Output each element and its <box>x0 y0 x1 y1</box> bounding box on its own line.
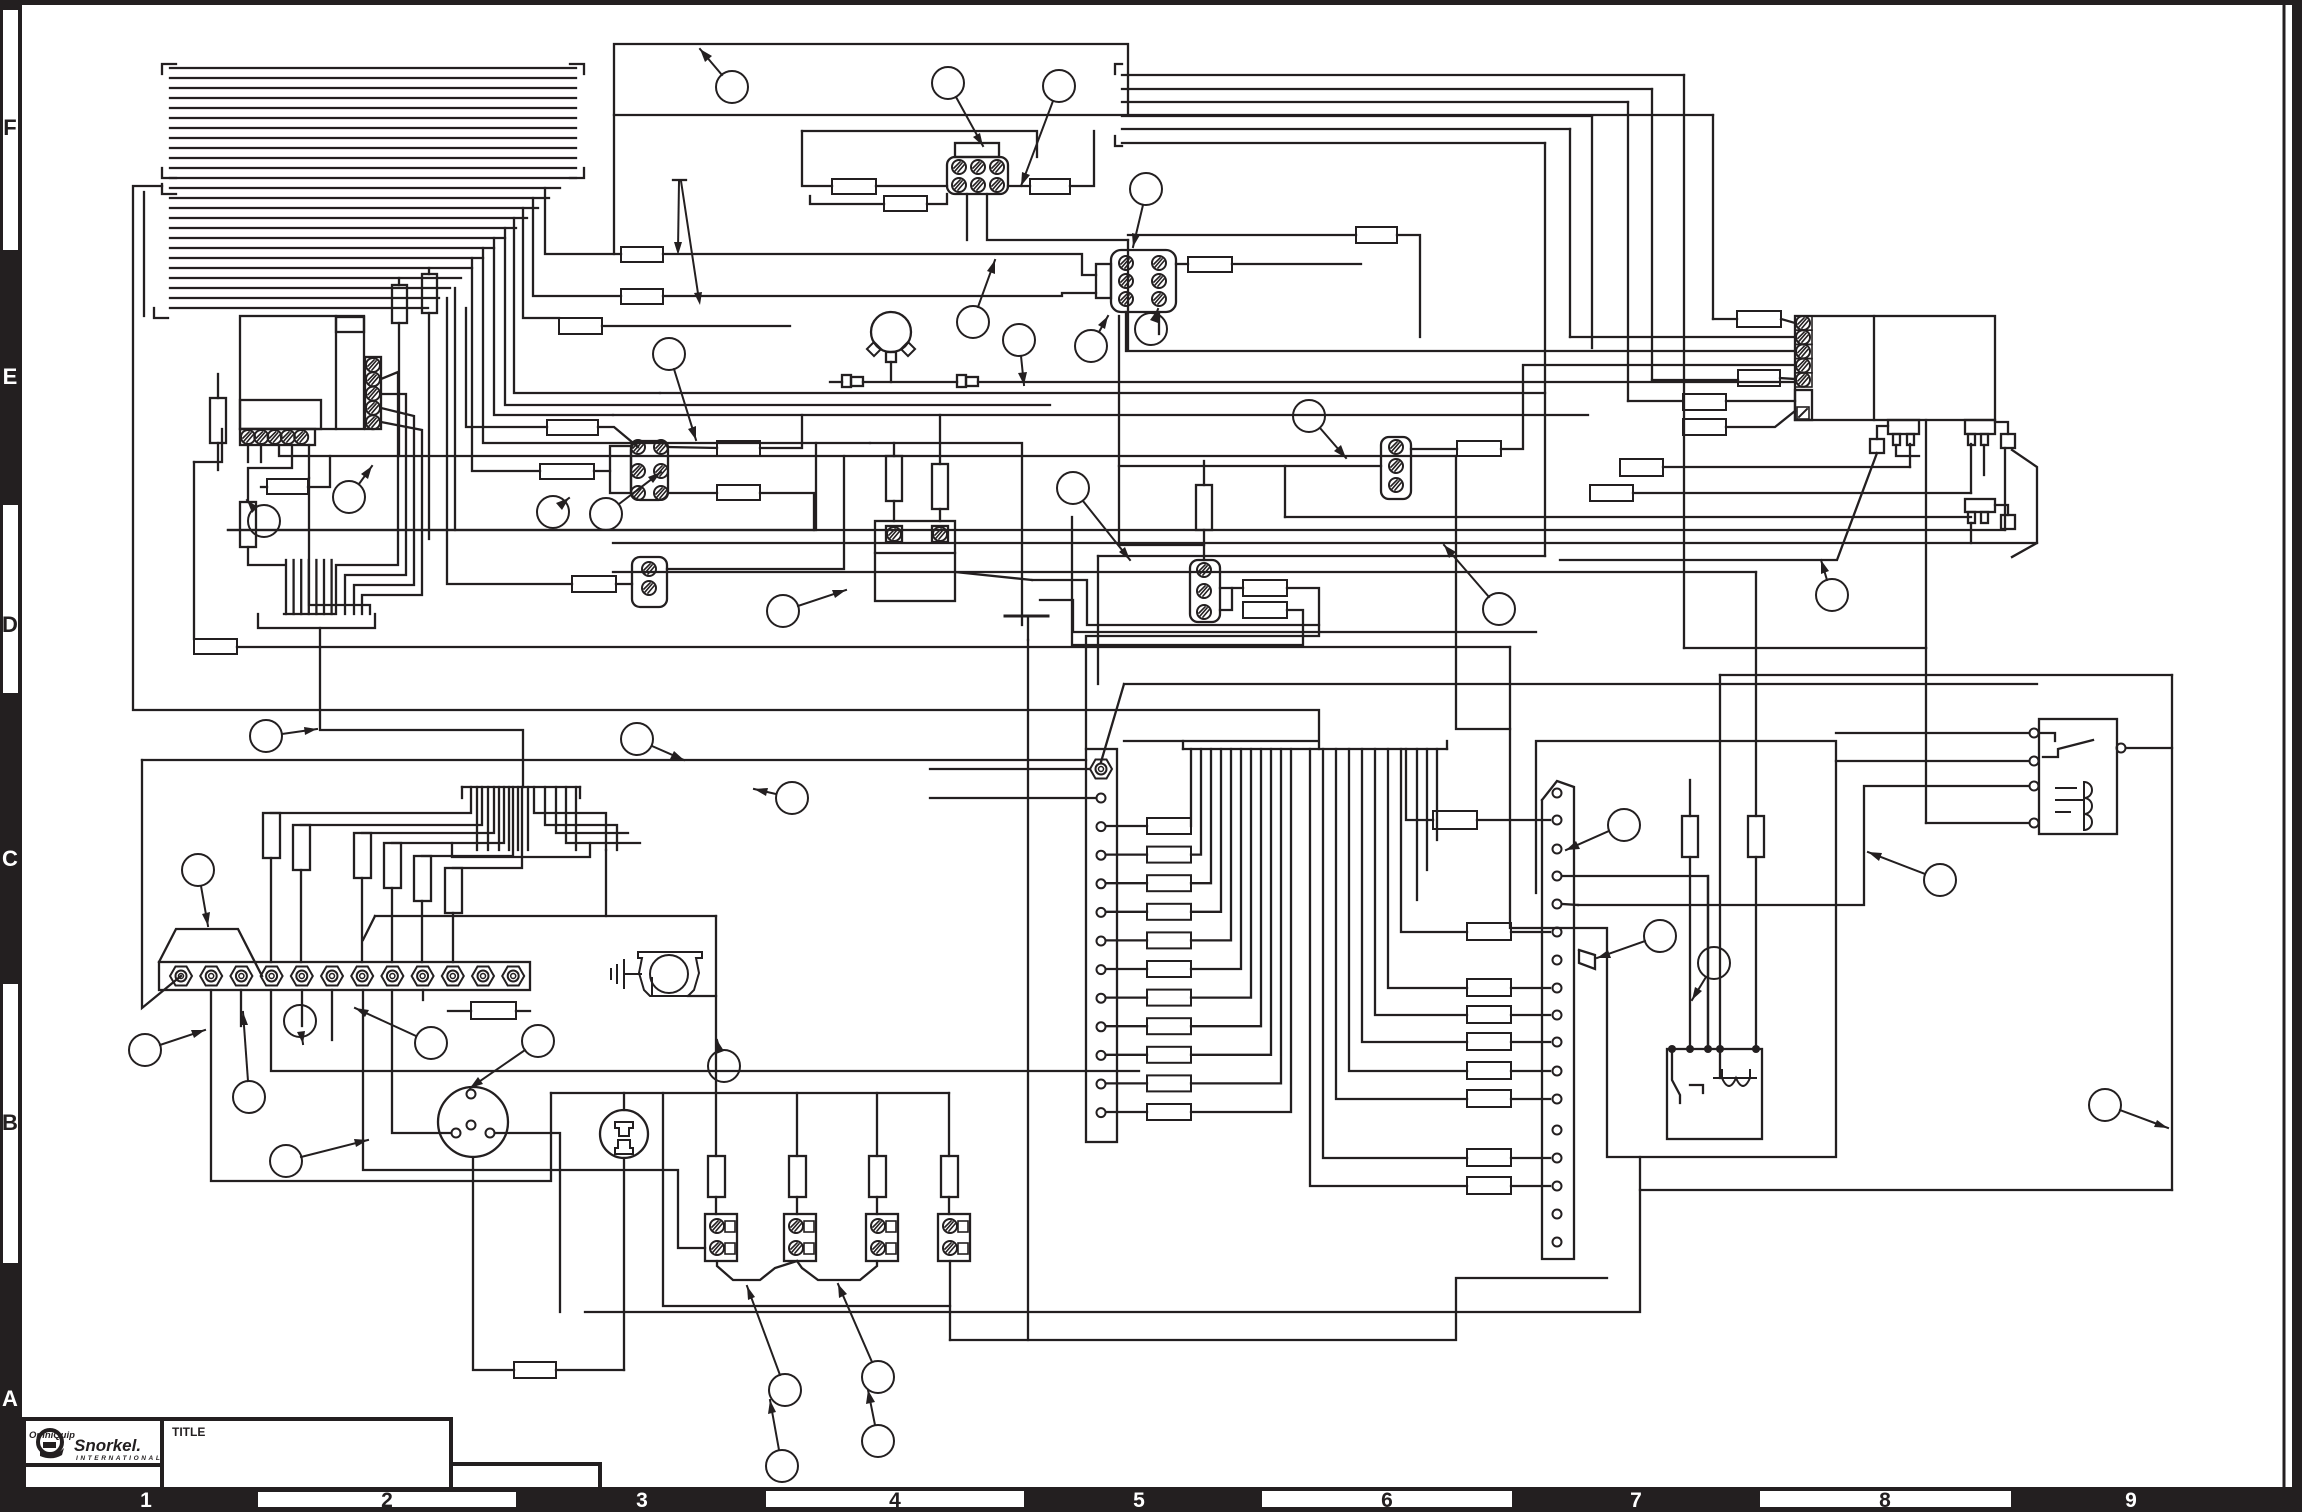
wire <box>1106 853 1147 855</box>
resistor <box>471 1002 516 1019</box>
wire <box>1663 466 1910 468</box>
screw terminal <box>502 967 524 986</box>
box <box>1795 344 1812 358</box>
wire to FB2 <box>663 254 1096 275</box>
callout balloon <box>470 1025 554 1088</box>
wire <box>258 614 375 628</box>
callout balloon <box>621 723 684 760</box>
wire <box>1511 1185 1550 1187</box>
wire <box>143 192 145 316</box>
wire <box>1220 588 1232 610</box>
wire <box>1232 263 1361 265</box>
wire <box>1726 400 1795 402</box>
screw terminal <box>1152 274 1166 288</box>
callout balloon <box>1444 545 1515 625</box>
wire <box>1401 749 1467 932</box>
wire to comb <box>309 478 370 614</box>
wire <box>1191 749 1271 1055</box>
fuse <box>392 285 407 323</box>
wire <box>663 1093 950 1306</box>
wire <box>452 843 590 857</box>
wire <box>1416 749 1418 900</box>
wire <box>271 990 1139 1071</box>
screw terminal <box>952 178 966 192</box>
wire <box>1106 968 1147 970</box>
box <box>632 557 667 607</box>
stepped wire <box>1086 588 1319 749</box>
box <box>932 464 948 509</box>
screw terminal <box>1090 760 1112 779</box>
wire <box>797 1261 877 1280</box>
wire <box>398 323 400 456</box>
tick <box>579 787 581 798</box>
svg-text:E: E <box>3 364 18 389</box>
resistor <box>621 289 663 304</box>
box <box>886 352 896 362</box>
box <box>0 1487 2302 1512</box>
wire <box>1563 904 1578 905</box>
wire <box>966 194 968 240</box>
screw terminal <box>1553 1126 1562 1135</box>
wire <box>1983 445 1985 475</box>
wire vertical <box>1925 420 1927 648</box>
box <box>804 1221 814 1232</box>
screw terminal <box>1553 872 1562 881</box>
wire <box>453 787 522 868</box>
wire <box>1780 378 1795 379</box>
wire <box>566 787 640 843</box>
wire <box>448 1010 471 1012</box>
tick <box>673 179 686 181</box>
screw terminal <box>241 430 255 444</box>
wire <box>1511 987 1550 989</box>
resistor <box>1467 923 1511 940</box>
wire <box>760 415 802 448</box>
screw terminal <box>351 967 373 986</box>
wire <box>516 1010 530 1012</box>
callout balloon <box>708 1040 740 1082</box>
wire <box>575 787 577 850</box>
box <box>958 1243 968 1254</box>
wire <box>300 560 302 614</box>
box <box>240 316 364 429</box>
box <box>1086 749 1117 1142</box>
relay sub-box <box>240 400 321 429</box>
wire <box>2039 733 2055 741</box>
wire <box>1191 749 1281 1083</box>
resistor <box>559 318 602 334</box>
screw terminal <box>254 430 268 444</box>
circle <box>438 1087 508 1157</box>
svg-text:F: F <box>3 115 16 140</box>
wire <box>331 990 333 1040</box>
wire <box>1005 615 1048 618</box>
wire <box>170 287 450 289</box>
box <box>705 1214 737 1261</box>
screw terminal <box>943 1219 957 1233</box>
wire to nut <box>452 913 454 962</box>
wire <box>1191 749 1241 969</box>
wire <box>392 990 451 1133</box>
wire <box>260 445 262 462</box>
resistor <box>1188 257 1232 272</box>
wire <box>323 560 325 614</box>
wire <box>1542 781 1574 1259</box>
screw terminal <box>1553 1210 1562 1219</box>
wire <box>1191 749 1261 1026</box>
box <box>1965 499 1995 512</box>
box <box>708 1156 725 1197</box>
callout balloon <box>862 1390 894 1457</box>
callout balloon <box>838 1284 894 1393</box>
wire <box>545 188 621 254</box>
wire over FB1 <box>802 131 1037 157</box>
screw terminal <box>1097 994 1106 1003</box>
box <box>451 1464 600 1490</box>
box <box>293 825 310 870</box>
resistor <box>194 639 237 654</box>
wire <box>870 443 1022 625</box>
wire <box>228 443 816 530</box>
wire <box>1896 445 1919 456</box>
screw terminal <box>1097 965 1106 974</box>
wire <box>217 443 219 470</box>
resistor <box>1147 932 1191 948</box>
wire <box>1122 101 1628 103</box>
wire <box>1106 1082 1147 1084</box>
screw terminal <box>952 160 966 174</box>
callout balloon <box>700 49 748 103</box>
wire down <box>473 1157 514 1370</box>
screw terminal <box>1796 359 1810 373</box>
wire <box>863 381 957 383</box>
callout balloon <box>250 720 317 752</box>
wire <box>1191 749 1221 912</box>
screw terminal <box>971 178 985 192</box>
screw terminal <box>871 1241 885 1255</box>
relay tab <box>336 317 364 332</box>
box <box>842 375 851 387</box>
callout balloon <box>932 67 983 146</box>
resistor <box>1620 459 1663 476</box>
box <box>24 1419 162 1465</box>
wire <box>1122 74 1684 76</box>
callout balloon <box>754 782 808 814</box>
wire left <box>1119 465 1381 467</box>
resistor <box>1738 370 1780 386</box>
screw terminal <box>631 464 645 478</box>
resistor <box>1147 1047 1191 1063</box>
callout balloon <box>247 500 280 537</box>
wire <box>170 117 576 119</box>
callout balloon <box>1130 173 1162 247</box>
screw terminal <box>268 430 282 444</box>
wire to nut <box>391 888 393 962</box>
box <box>2001 434 2015 448</box>
wire <box>1755 857 1757 1049</box>
wire <box>667 456 844 569</box>
left edge with diagonal to strip <box>142 760 181 1008</box>
resistor <box>1467 1177 1511 1194</box>
wire <box>422 787 513 856</box>
callout balloon <box>747 1286 801 1406</box>
callout balloon <box>284 1005 316 1044</box>
resistor <box>1433 811 1477 829</box>
screw terminal <box>1553 789 1562 798</box>
box <box>886 526 902 542</box>
wire <box>1191 749 1211 883</box>
wire <box>398 278 400 285</box>
wire <box>1995 505 2008 515</box>
box <box>1907 434 1914 445</box>
resistor <box>1467 1006 1511 1023</box>
screw terminal <box>1152 292 1166 306</box>
wire <box>170 227 516 229</box>
box <box>804 1243 814 1254</box>
wire <box>1926 822 2029 824</box>
wire <box>170 217 527 219</box>
screw terminal <box>1553 984 1562 993</box>
screw terminal <box>990 178 1004 192</box>
wire <box>556 1369 624 1371</box>
box <box>24 1465 162 1490</box>
wire <box>1040 600 1536 632</box>
wire <box>1106 825 1147 827</box>
screw terminal <box>789 1241 803 1255</box>
screw terminal <box>1197 584 1211 598</box>
screw terminal <box>654 486 668 500</box>
resistor <box>1467 1090 1511 1107</box>
wire <box>301 787 482 825</box>
screw terminal <box>1097 1108 1106 1117</box>
screw terminal <box>1097 794 1106 803</box>
box <box>869 1156 886 1197</box>
wire <box>1511 1041 1550 1043</box>
wire <box>1511 931 1550 933</box>
box <box>1795 330 1812 344</box>
box <box>955 143 999 157</box>
box <box>851 377 863 386</box>
resistor <box>1467 979 1511 996</box>
wire <box>949 1261 951 1340</box>
wire <box>1220 587 1243 589</box>
screw terminal <box>261 967 283 986</box>
svg-text:Snorkel.: Snorkel. <box>74 1436 141 1455</box>
screw terminal <box>631 440 645 454</box>
box <box>1096 264 1111 298</box>
box <box>1981 434 1988 445</box>
wire <box>1285 516 1971 518</box>
screw terminal <box>1553 928 1562 937</box>
callout balloon <box>1021 70 1075 186</box>
wire <box>875 552 955 554</box>
wire <box>893 501 895 521</box>
wire <box>1684 647 1926 649</box>
wire <box>228 529 2005 531</box>
box <box>1795 390 1812 420</box>
wire <box>594 470 610 472</box>
wire <box>1720 674 2172 676</box>
screw terminal <box>200 967 222 986</box>
resistor <box>1356 227 1397 243</box>
wire <box>1122 128 1570 130</box>
resistor <box>1737 311 1781 327</box>
screw terminal <box>2030 757 2039 766</box>
relay coil <box>2056 782 2092 830</box>
callout balloon <box>233 1012 265 1113</box>
resistor <box>1147 847 1191 863</box>
wire <box>466 308 547 427</box>
wire dup <box>1707 876 1709 1049</box>
screw terminal <box>1796 316 1810 330</box>
wire <box>308 456 330 487</box>
screw terminal <box>1152 256 1166 270</box>
bracket <box>1115 64 1122 74</box>
box <box>1968 512 1975 523</box>
callout balloon <box>590 472 661 530</box>
svg-text:2: 2 <box>381 1489 393 1512</box>
wire <box>194 429 222 462</box>
wire <box>193 462 195 639</box>
wire <box>1183 748 1447 750</box>
long wire right <box>2171 675 2173 1190</box>
wire to nut <box>270 858 272 962</box>
wire <box>170 257 483 259</box>
wire <box>660 392 1545 394</box>
wire <box>987 194 1128 240</box>
tick <box>1446 741 1448 749</box>
wire <box>508 787 510 850</box>
wire <box>1436 749 1438 840</box>
resistor <box>1147 1075 1191 1091</box>
wire vertical lower <box>1925 648 1927 823</box>
screw terminal <box>789 1219 803 1233</box>
screw terminal <box>1553 1154 1562 1163</box>
wire <box>301 990 303 1026</box>
wire <box>330 560 332 614</box>
screw terminal <box>1197 563 1211 577</box>
wire to nut <box>361 878 363 962</box>
callout balloon <box>333 466 372 513</box>
svg-text:TITLE: TITLE <box>172 1425 205 1439</box>
wire <box>1426 749 1428 870</box>
wire <box>1726 411 1795 427</box>
screw terminal <box>642 562 656 576</box>
wire to K3 <box>1719 675 1721 1078</box>
wire <box>1375 749 1467 1015</box>
resistor <box>717 441 760 456</box>
screw terminal <box>1553 1011 1562 1020</box>
callout balloon <box>766 1400 798 1482</box>
wire <box>494 238 613 415</box>
screw terminal <box>1553 1038 1562 1047</box>
screw terminal <box>1389 459 1403 473</box>
screw terminal <box>366 415 380 429</box>
wire to controller screw4 <box>1501 365 1795 449</box>
fuse <box>422 274 437 313</box>
wire <box>476 787 478 850</box>
wire <box>345 394 406 614</box>
resistor <box>1467 1149 1511 1166</box>
box <box>886 1243 896 1254</box>
wire <box>170 87 576 89</box>
tick <box>461 787 463 798</box>
wire from distributor right pin <box>495 1133 560 1312</box>
resistor <box>1147 961 1191 977</box>
wire <box>1106 911 1147 913</box>
screw terminal <box>1097 937 1106 946</box>
wire <box>483 248 870 443</box>
box <box>1190 560 1220 622</box>
wire <box>2012 450 2037 557</box>
wire <box>1122 88 1652 90</box>
resistor <box>1683 419 1726 435</box>
wire <box>170 147 576 149</box>
screw terminal <box>321 967 343 986</box>
wire <box>170 137 576 139</box>
svg-text:C: C <box>2 846 18 871</box>
wire <box>240 990 242 1026</box>
wire <box>170 187 560 189</box>
box <box>957 375 966 387</box>
screw terminal <box>486 1129 495 1138</box>
wire <box>1388 749 1467 988</box>
screw terminal <box>943 1241 957 1255</box>
wire <box>1411 448 1457 450</box>
resistor <box>1467 1062 1511 1079</box>
callout balloon <box>1135 309 1167 345</box>
resistor <box>1147 1018 1191 1034</box>
wire <box>978 381 1795 383</box>
wire <box>505 228 1050 405</box>
wire <box>1119 316 1204 545</box>
wire <box>422 990 424 1000</box>
wire <box>142 759 1086 761</box>
circle <box>871 312 911 352</box>
screw terminal <box>1119 292 1133 306</box>
screw terminal <box>467 1121 476 1130</box>
resistor <box>540 464 594 479</box>
box <box>0 0 22 1512</box>
screw terminal <box>442 967 464 986</box>
callout balloon <box>957 260 995 338</box>
wire <box>585 1190 1640 1312</box>
wire <box>170 247 494 249</box>
wire <box>514 218 660 393</box>
resistor <box>267 479 308 494</box>
wire <box>170 207 538 209</box>
resistor <box>1030 179 1070 194</box>
box <box>932 526 948 542</box>
wire <box>760 493 814 530</box>
wire <box>1511 1098 1550 1100</box>
wire to pin <box>1970 444 1972 493</box>
svg-text:B: B <box>2 1110 18 1135</box>
wire <box>1070 131 1094 186</box>
screw terminal <box>1119 274 1133 288</box>
wire <box>428 313 430 539</box>
callout balloon <box>1692 947 1730 1000</box>
resistor <box>832 179 876 194</box>
wire <box>1124 740 1318 742</box>
box <box>1981 512 1988 523</box>
wire <box>315 560 317 614</box>
resistor <box>717 485 760 500</box>
resistor <box>621 247 663 262</box>
wire <box>1203 461 1205 485</box>
callout balloon <box>270 1139 368 1177</box>
wire <box>1106 1111 1147 1113</box>
